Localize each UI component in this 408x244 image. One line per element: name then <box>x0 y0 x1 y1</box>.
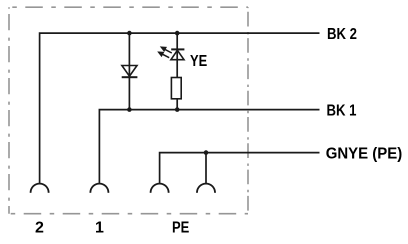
svg-text:BK 2: BK 2 <box>327 26 357 43</box>
svg-text:BK 1: BK 1 <box>327 102 357 119</box>
svg-text:PE: PE <box>172 219 190 236</box>
svg-text:1: 1 <box>95 219 104 236</box>
svg-text:YE: YE <box>190 53 207 70</box>
svg-text:2: 2 <box>35 219 44 236</box>
svg-text:GNYE (PE): GNYE (PE) <box>326 145 403 162</box>
